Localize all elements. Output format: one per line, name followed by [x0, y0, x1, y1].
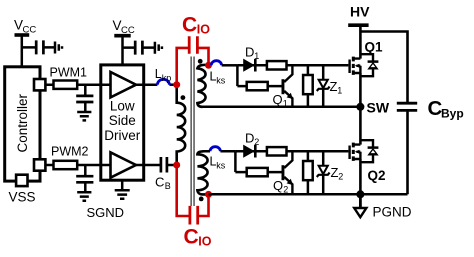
- inductor T1 secondary bottom: [197, 151, 208, 194]
- transformer T1 core: [190, 57, 192, 207]
- svg-text:2: 2: [254, 137, 259, 147]
- wire SW to Q2 drain: [359, 107, 362, 145]
- svg-text:Side: Side: [109, 113, 136, 128]
- wire PWM2 filter cap branch: [84, 165, 87, 192]
- controller U1 box: [5, 67, 40, 181]
- wire Vcc1 bypass branch: [22, 46, 55, 49]
- svg-text:PGND: PGND: [373, 205, 412, 220]
- power bar Vcc2: [114, 34, 130, 38]
- wire secondary top to gate loop A: [222, 64, 238, 67]
- svg-text:B: B: [165, 181, 171, 191]
- capacitor CIO top: [189, 36, 197, 54]
- wire loop A left branch vertical: [236, 65, 239, 86]
- svg-text:2: 2: [338, 172, 343, 182]
- transistor Q2 (MOSFET): [350, 143, 361, 195]
- svg-text:C: C: [184, 226, 199, 249]
- label Q1 bjt: [273, 92, 288, 109]
- label Q2 bjt: [273, 178, 288, 195]
- label D2: [245, 131, 259, 148]
- diode D1: [244, 59, 256, 72]
- pin PWM1 terminal: [34, 79, 45, 90]
- wire loop B lower branch: [235, 171, 281, 174]
- svg-text:Byp: Byp: [441, 106, 464, 120]
- capacitor CB: [161, 157, 167, 173]
- diode Q2 body: [360, 140, 378, 162]
- svg-text:Driver: Driver: [104, 128, 141, 143]
- wire loop B left branch vertical: [234, 151, 237, 172]
- zener Z2: [317, 151, 330, 194]
- node secondary bottom polarity dot: [199, 197, 204, 202]
- power bar Vcc1: [15, 33, 30, 37]
- label Low Side Driver: [104, 99, 141, 143]
- svg-text:SGND: SGND: [87, 205, 125, 220]
- svg-text:PWM2: PWM2: [51, 145, 89, 159]
- capacitor PWM2 filter: [76, 176, 93, 182]
- label CByp: [428, 97, 464, 120]
- svg-text:Q: Q: [273, 178, 283, 193]
- svg-text:IO: IO: [197, 23, 210, 37]
- resistor loop A top: [267, 61, 287, 69]
- wire loop A top rail: [237, 64, 348, 67]
- wire PWM1 filter cap branch: [84, 85, 87, 112]
- label CIO top: [182, 14, 210, 37]
- label D1: [245, 45, 259, 62]
- svg-text:Q1: Q1: [365, 40, 384, 55]
- svg-text:C: C: [155, 175, 164, 190]
- label CIO bottom: [184, 226, 212, 249]
- node primary bottom (red): [173, 162, 180, 169]
- transistor Q1 (BJT): [282, 65, 293, 107]
- wire loop B top rail: [235, 150, 348, 153]
- op-amp buffer A2: [111, 152, 137, 177]
- wire loop A lower branch: [237, 85, 281, 88]
- inductor Lks bottom (leakage, blue): [210, 147, 220, 152]
- inductor T1 primary: [177, 85, 186, 165]
- resistor loop B top: [267, 147, 287, 155]
- ground PGND symbol: [354, 194, 366, 217]
- ground PWM1: [77, 112, 91, 120]
- op-amp buffer A1: [111, 72, 137, 97]
- svg-text:1: 1: [337, 86, 342, 96]
- wire CIO top red net: [177, 48, 209, 85]
- wire Vcc2 vertical to driver: [121, 36, 124, 65]
- wire PWM1 net: [45, 83, 110, 86]
- diode Q1 body: [360, 54, 378, 76]
- svg-text:D: D: [245, 131, 254, 146]
- svg-text:1: 1: [283, 99, 288, 109]
- resistor loop A lower: [247, 82, 268, 90]
- driver U2 box: [101, 65, 144, 180]
- svg-text:Q2: Q2: [368, 168, 386, 183]
- label Z1: [330, 79, 343, 96]
- node SW: [356, 103, 364, 111]
- inductor T1 secondary top: [197, 65, 208, 107]
- label Vcc2: [113, 18, 135, 36]
- svg-text:Low: Low: [110, 99, 135, 114]
- svg-text:kp: kp: [162, 73, 172, 83]
- label CB: [155, 175, 171, 192]
- resistor loop B vertical: [303, 151, 313, 194]
- ground PWM2: [77, 192, 91, 200]
- capacitor CIO bottom: [190, 206, 198, 225]
- label Lkp: [155, 67, 172, 83]
- svg-text:PWM1: PWM1: [50, 66, 88, 80]
- capacitor CByp: [397, 103, 417, 194]
- transistor Q1 (MOSFET): [350, 57, 361, 107]
- wire CIO bottom red net: [177, 165, 209, 216]
- svg-text:2: 2: [283, 185, 288, 195]
- node secondary top junction (red): [205, 62, 212, 69]
- ground Vcc1 (rotated): [55, 42, 62, 54]
- svg-text:Z: Z: [331, 165, 339, 180]
- wire Lkp to primary node: [169, 83, 176, 86]
- pin VSS terminal: [16, 175, 27, 186]
- pin PWM2 terminal: [34, 159, 45, 170]
- svg-text:C: C: [182, 14, 197, 37]
- power bar HV: [348, 23, 368, 27]
- label Lks top: [210, 70, 226, 86]
- wire buffer A1 input/output stubs: [101, 83, 145, 86]
- ground Vcc2 (rotated): [155, 42, 162, 54]
- capacitor PWM1 filter: [76, 96, 93, 102]
- ground SGND symbol: [115, 190, 130, 198]
- resistor loop A vertical: [303, 65, 313, 107]
- label Z2: [331, 165, 344, 182]
- resistor PWM2 series: [54, 161, 78, 169]
- svg-text:ks: ks: [216, 161, 226, 171]
- wire buffer A2 input/output stubs: [101, 164, 145, 167]
- wire driver ground stem: [121, 180, 124, 190]
- wire CB to primary bottom node: [167, 164, 177, 167]
- svg-text:SW: SW: [367, 100, 390, 116]
- node primary polarity dot: [181, 95, 186, 100]
- svg-text:ks: ks: [216, 76, 226, 86]
- wire PWM2 net: [45, 164, 110, 167]
- wire HV branch to CByp: [360, 32, 407, 104]
- wire secondary bottom to gate loop B: [204, 150, 236, 153]
- wire driver1 output to Lkp: [136, 83, 157, 86]
- diode D2: [244, 145, 256, 158]
- wire HV vertical to Q1 drain: [359, 25, 362, 58]
- node secondary bottom junction (red): [205, 191, 212, 198]
- label Lks bottom: [210, 155, 226, 171]
- wire Vcc1 vertical to controller: [21, 35, 24, 67]
- label Vcc1: [14, 18, 36, 36]
- svg-text:HV: HV: [350, 4, 370, 20]
- node primary top (red): [173, 81, 180, 88]
- zener Z1: [317, 65, 330, 107]
- resistor PWM1 series: [54, 81, 78, 89]
- svg-text:CC: CC: [23, 25, 37, 36]
- svg-text:VSS: VSS: [9, 190, 36, 205]
- transistor Q2 (BJT): [282, 151, 293, 194]
- wire Vcc2 bypass branch: [123, 46, 155, 49]
- node secondary top polarity dot: [198, 59, 203, 64]
- svg-text:Z: Z: [330, 79, 338, 94]
- svg-text:Controller: Controller: [15, 93, 30, 152]
- resistor loop B lower: [247, 168, 268, 176]
- inductor Lks top (leakage, blue): [211, 61, 221, 66]
- svg-text:Q: Q: [273, 92, 283, 107]
- svg-text:1: 1: [254, 51, 259, 61]
- wire loop A bottom rail (to SW): [203, 106, 361, 109]
- svg-text:D: D: [245, 45, 254, 60]
- svg-text:CC: CC: [121, 25, 135, 36]
- capacitor Vcc1 bypass: [36, 40, 43, 54]
- capacitor Vcc2 bypass: [135, 41, 142, 55]
- wire loop B bottom rail (to PGND): [209, 193, 408, 196]
- node PGND junction: [356, 190, 364, 198]
- svg-text:L: L: [155, 67, 162, 81]
- inductor Lkp (leakage, blue): [157, 79, 169, 84]
- svg-text:IO: IO: [198, 235, 211, 249]
- wire driver2 output to CB: [136, 164, 161, 167]
